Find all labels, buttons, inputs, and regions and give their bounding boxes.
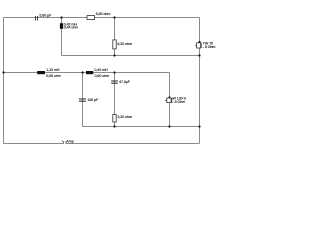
resistor R3 3,20 ohm (RC branch): [113, 115, 132, 123]
svg-text:0,60 ohm: 0,60 ohm: [95, 74, 110, 78]
junction node bus/RC: [113, 125, 115, 127]
wire capacitor C2 branch vertical: [82, 73, 84, 127]
capacitor C2 150 uF (shunt): [79, 98, 99, 102]
amp terminals + - Amp: [62, 140, 74, 144]
svg-text:1,10 mH: 1,10 mH: [46, 68, 60, 72]
svg-text:5,60 µF: 5,60 µF: [39, 14, 52, 18]
junction node bus/right column: [198, 125, 200, 127]
capacitor C1 5,60 uF (series, top wire): [36, 14, 53, 21]
inductor L1 0,42 mH shunt (vertical black rect): [60, 22, 78, 29]
svg-text:3,20 ohm: 3,20 ohm: [117, 115, 132, 119]
junction node top/R2: [113, 16, 115, 18]
inductor L2 1,10 mH (series, middle wire): [37, 68, 61, 78]
wire shunt resistor branch vertical: [114, 18, 116, 56]
capacitor C3 47,0 uF (RC branch): [111, 80, 131, 84]
wire return bus horizontal: [83, 126, 200, 128]
junction node middle/C2: [81, 71, 83, 73]
wire middle horizontal (woofer branch): [4, 72, 170, 74]
svg-text:150 µF: 150 µF: [87, 98, 99, 102]
inductor L3 0,40 mH (series, middle wire): [86, 68, 109, 78]
junction node middle/RC: [113, 71, 115, 73]
woofer W 130 S - 8 Ohm: [165, 96, 186, 104]
junction node bus/middle wire: [2, 71, 4, 73]
wire RC branch vertical: [114, 73, 116, 127]
junction node top/L1: [60, 16, 62, 18]
svg-text:-Amp: -Amp: [65, 140, 73, 144]
wire top horizontal (+ feed to tweeter branch): [4, 17, 200, 19]
junction node bus/woofer: [168, 125, 170, 127]
svg-text:0,44 ohm: 0,44 ohm: [64, 26, 79, 30]
svg-text:0,55 ohm: 0,55 ohm: [46, 74, 61, 78]
wire right column vertical (tweeter + return): [199, 18, 201, 144]
svg-text:0,40 mH: 0,40 mH: [95, 68, 109, 72]
wire left bus vertical: [3, 18, 5, 144]
wire shunt inductor branch vertical: [61, 18, 63, 56]
svg-text:47,0µF: 47,0µF: [119, 80, 131, 84]
svg-text:- 8 Ohm: - 8 Ohm: [203, 45, 216, 49]
resistor R2 8,20 ohm (shunt vertical): [113, 40, 132, 49]
wire woofer branch vertical: [169, 73, 171, 127]
resistor R1 6,80 ohm (series, top wire): [87, 12, 110, 20]
wire bottom amp right segment: [66, 143, 200, 145]
svg-text:8,20 ohm: 8,20 ohm: [117, 42, 132, 46]
junction node return/right column: [198, 54, 200, 56]
junction node return/R2: [113, 54, 115, 56]
wire bottom amp left segment: [4, 143, 64, 145]
svg-text:+: +: [62, 140, 64, 144]
svg-text:- 8 Ohm: - 8 Ohm: [173, 100, 186, 104]
svg-text:6,80 ohm: 6,80 ohm: [96, 12, 111, 16]
tweeter TW 70 - 8 Ohm: [195, 41, 215, 49]
wire tweeter shunt return horizontal: [62, 55, 200, 57]
